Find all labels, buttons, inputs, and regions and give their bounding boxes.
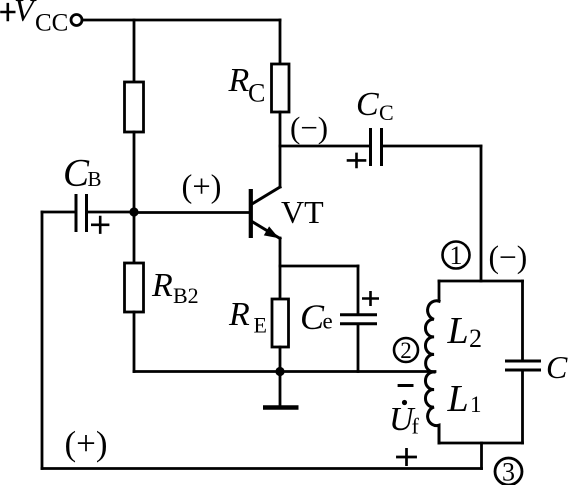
wire base bbox=[134, 211, 249, 214]
svg-text:B2: B2 bbox=[173, 283, 199, 308]
svg-text:R: R bbox=[228, 296, 250, 333]
label CC bbox=[356, 86, 394, 125]
wire RB1 bottom to base node bbox=[133, 132, 136, 212]
svg-text:R: R bbox=[228, 62, 250, 99]
svg-text:C: C bbox=[379, 100, 394, 125]
svg-text:(+): (+) bbox=[182, 169, 222, 205]
transistor VT collector diagonal bbox=[252, 187, 280, 204]
svg-text:C: C bbox=[63, 152, 90, 195]
transistor VT emitter arrow bbox=[264, 226, 279, 238]
svg-text:f: f bbox=[412, 414, 420, 439]
capacitor Ce plates bbox=[342, 315, 376, 324]
wire right vertical down to tank bbox=[480, 146, 483, 281]
wire bottom rail up to tank bbox=[480, 443, 483, 469]
label Ce bbox=[300, 297, 333, 337]
capacitor C plates bbox=[507, 361, 540, 370]
label Ce plus bbox=[363, 292, 377, 304]
wire base node to RB2 bbox=[133, 212, 136, 263]
wire left outer down bbox=[41, 212, 44, 469]
wire bottom mid rail to coil tap bbox=[134, 370, 435, 373]
wire collector to CC bbox=[280, 145, 369, 148]
svg-text:2: 2 bbox=[400, 338, 412, 363]
label L1 bbox=[447, 378, 482, 420]
label CC plus bbox=[348, 154, 365, 167]
transistor VT emitter diagonal bbox=[252, 222, 280, 239]
transistor VT base bar bbox=[249, 189, 253, 238]
tank bottom wire bbox=[439, 442, 523, 445]
tank left upper stub bbox=[438, 281, 441, 301]
label Uf bbox=[389, 400, 420, 439]
resistor RB1 bbox=[125, 82, 144, 132]
tank right side upper bbox=[521, 281, 524, 360]
svg-text:2: 2 bbox=[469, 324, 482, 353]
label RE bbox=[228, 296, 267, 338]
node 1 circled bbox=[443, 241, 470, 270]
tank right side lower bbox=[521, 372, 524, 443]
wire emitter vertical bbox=[279, 238, 282, 299]
wire RE bottom bbox=[279, 347, 282, 372]
label CB plus bbox=[92, 217, 108, 233]
wire ground stub bbox=[279, 372, 282, 406]
svg-text:VT: VT bbox=[281, 194, 324, 230]
tank top wire bbox=[439, 280, 523, 283]
label L2 bbox=[447, 310, 483, 353]
node 3 circled bbox=[495, 458, 522, 485]
svg-text:(−): (−) bbox=[290, 110, 328, 145]
label RC bbox=[228, 62, 266, 108]
svg-text:CC: CC bbox=[35, 10, 68, 37]
wire CC to tank top bbox=[382, 145, 482, 148]
svg-text:C: C bbox=[248, 79, 265, 108]
svg-text:e: e bbox=[323, 309, 333, 334]
label plus Uf bbox=[397, 449, 415, 464]
label minus Uf bbox=[399, 384, 412, 387]
svg-text:B: B bbox=[88, 167, 102, 191]
resistor RE bbox=[272, 299, 289, 347]
wire Ce top bbox=[357, 266, 360, 313]
wire CB right to base node bbox=[87, 211, 135, 214]
svg-text:1: 1 bbox=[470, 392, 482, 417]
capacitor CC plates bbox=[371, 130, 382, 165]
svg-text:(−): (−) bbox=[489, 240, 528, 275]
node emitter ground junction bbox=[275, 367, 284, 376]
label CB bbox=[63, 152, 102, 195]
svg-text:R: R bbox=[151, 267, 173, 304]
inductor L1 bbox=[425, 372, 439, 443]
svg-text:C: C bbox=[546, 349, 568, 385]
ground bbox=[265, 405, 296, 410]
wire RB2 bottom down bbox=[133, 312, 136, 372]
svg-text:E: E bbox=[254, 313, 267, 338]
inductor L2 bbox=[425, 301, 439, 372]
node base junction bbox=[129, 207, 138, 216]
resistor RC bbox=[272, 64, 290, 112]
wire emitter branch to Ce bbox=[280, 265, 358, 268]
wire collector vertical bbox=[279, 112, 282, 187]
resistor RB2 bbox=[125, 263, 144, 312]
node 2 circled bbox=[394, 338, 418, 363]
svg-text:L: L bbox=[447, 378, 469, 420]
capacitor CB plates bbox=[76, 196, 87, 231]
svg-text:C: C bbox=[300, 297, 325, 337]
wire RC top bbox=[279, 20, 282, 64]
label RB2 bbox=[151, 267, 199, 308]
svg-text:C: C bbox=[356, 86, 379, 123]
wire top rail bbox=[83, 19, 280, 22]
svg-text:L: L bbox=[447, 310, 469, 352]
terminal VCC bbox=[71, 15, 82, 26]
wire CB left bbox=[42, 211, 76, 214]
wire RB1 branch down bbox=[133, 20, 136, 82]
label +VCC plus bbox=[2, 4, 15, 20]
wire Ce bottom bbox=[357, 325, 360, 371]
svg-text:3: 3 bbox=[502, 458, 515, 485]
wire bottom rail bbox=[42, 467, 482, 470]
label +VCC bbox=[14, 0, 68, 37]
svg-text:1: 1 bbox=[450, 241, 463, 270]
svg-text:(+): (+) bbox=[65, 424, 108, 463]
